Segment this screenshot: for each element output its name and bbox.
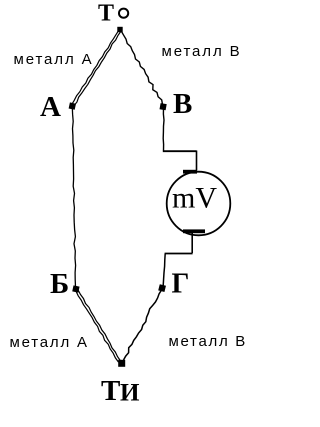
svg-text:В: В: [173, 88, 192, 120]
millivoltmeter mV (circle): [167, 172, 231, 236]
wire horizontal left below meter: [165, 253, 193, 255]
node B2 terminal dot: [72, 285, 79, 292]
wire metal-A top (double line, hot junction To to node A): [72, 30, 122, 106]
wire down into meter top: [196, 151, 198, 171]
meter top terminal mark: [183, 170, 197, 174]
wire horizontal to meter: [163, 150, 197, 152]
node B terminal dot: [160, 103, 167, 110]
node A terminal dot: [69, 102, 76, 109]
junction Ti (measuring junction, filled square): [118, 360, 125, 367]
svg-text:металл В: металл В: [169, 333, 247, 350]
node G terminal dot: [158, 284, 166, 292]
junction To (hot junction, filled square): [117, 27, 122, 32]
wire metal-B top (junction To to node B): [122, 32, 163, 105]
wire left vertical (node A to node B2): [72, 107, 75, 287]
thermocouple circuit diagram: [0, 0, 255, 422]
wire node B down: [162, 108, 165, 151]
wire metal-A bottom (double line, node B2 to junction Ti): [76, 290, 121, 362]
svg-text:металл В: металл В: [162, 43, 242, 60]
svg-text:металл А: металл А: [10, 334, 89, 351]
svg-text:металл А: металл А: [14, 51, 94, 68]
wire metal-B bottom (node G to junction Ti): [124, 290, 162, 360]
wire down to node G: [163, 254, 165, 286]
svg-text:А: А: [40, 91, 61, 123]
meter bottom terminal mark: [183, 229, 205, 233]
wire meter bottom down: [191, 233, 193, 253]
svg-text:Г: Г: [172, 269, 190, 300]
svg-text:mV: mV: [172, 182, 217, 215]
label To - subscript o circle: [119, 9, 128, 18]
svg-text:Б: Б: [50, 268, 69, 300]
svg-text:И: И: [120, 380, 140, 407]
svg-text:Т: Т: [98, 1, 114, 27]
svg-text:Т: Т: [101, 375, 120, 407]
